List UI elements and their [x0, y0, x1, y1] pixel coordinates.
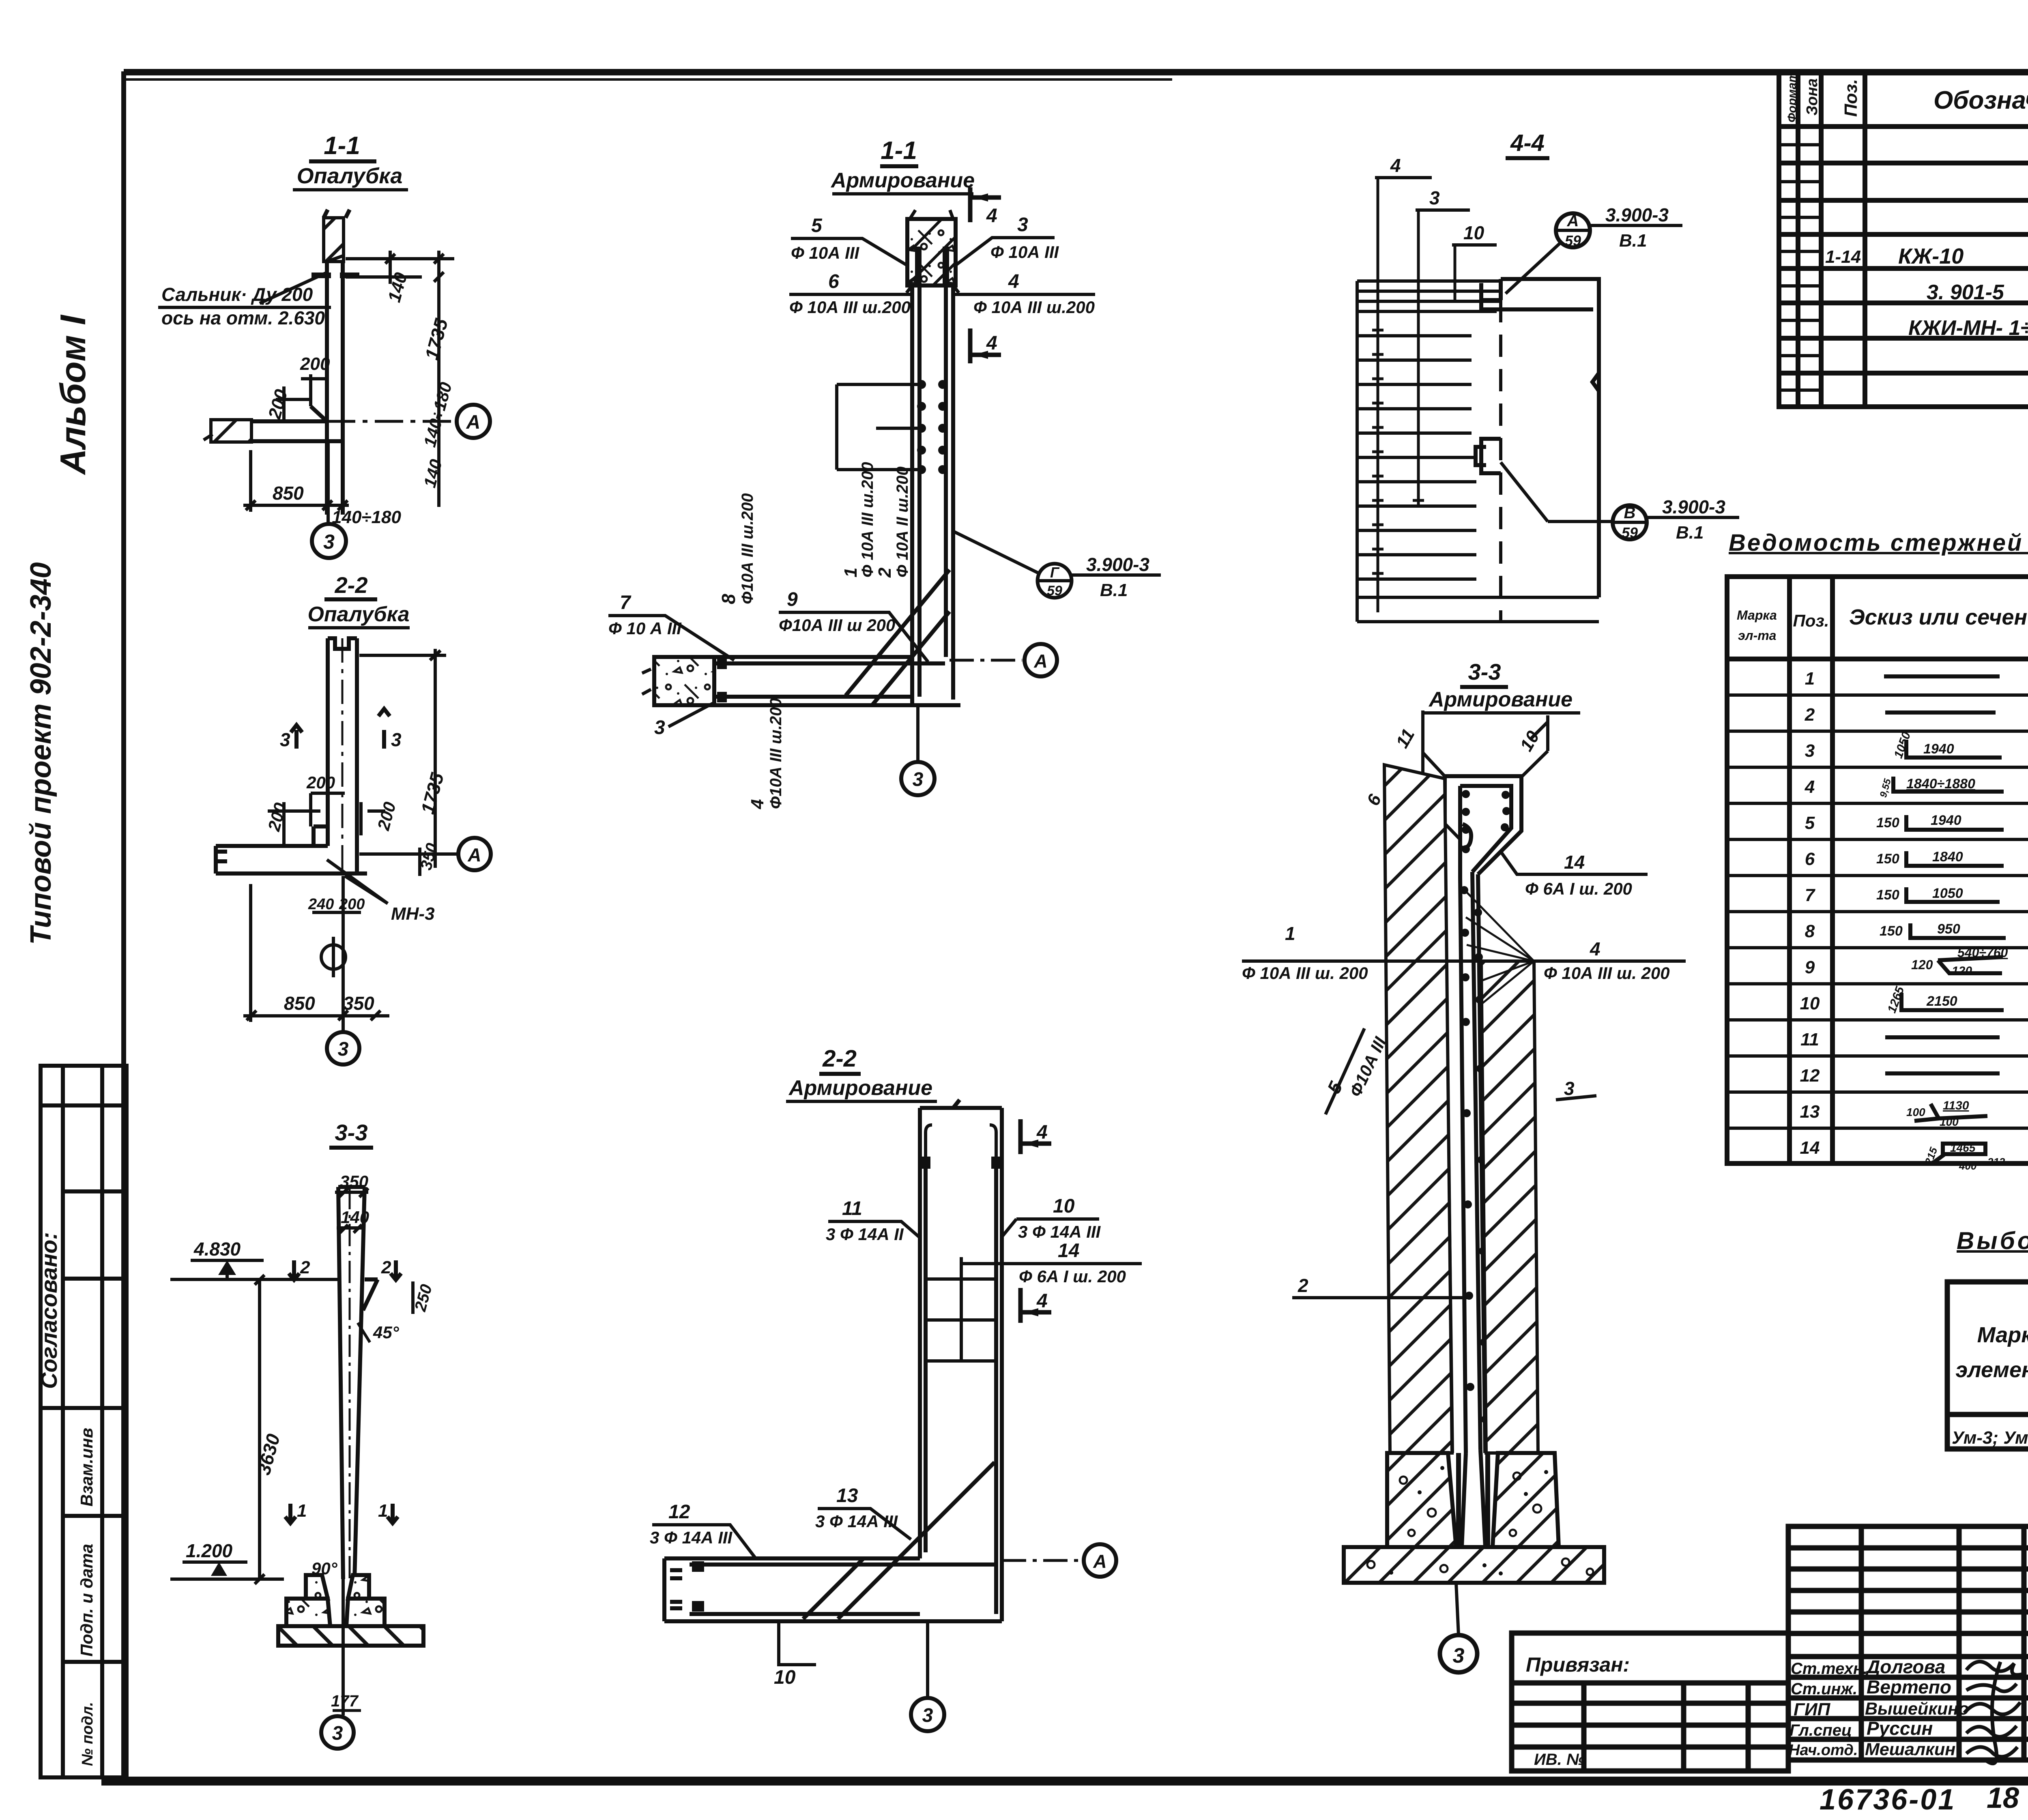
- svg-text:1-14: 1-14: [1825, 247, 1861, 267]
- svg-text:Опалубка: Опалубка: [297, 164, 403, 188]
- svg-text:150: 150: [1876, 851, 1899, 867]
- 177 dim: [342, 1579, 345, 1715]
- svg-text:45°: 45°: [373, 1323, 400, 1342]
- svg-text:В.1: В.1: [1100, 580, 1128, 600]
- svg-text:Ф 10А II ш.200: Ф 10А II ш.200: [894, 466, 911, 577]
- svg-text:Привязан:: Привязан:: [1526, 1653, 1630, 1676]
- svg-text:Мешалкин: Мешалкин: [1865, 1740, 1955, 1759]
- svg-text:Типовой проект 902-2-340: Типовой проект 902-2-340: [25, 562, 57, 945]
- footing: [1387, 1453, 1456, 1547]
- svg-text:2150: 2150: [1926, 994, 1957, 1009]
- svg-text:3: 3: [1017, 214, 1028, 236]
- svg-text:100: 100: [1906, 1106, 1925, 1118]
- svg-text:11: 11: [1800, 1030, 1819, 1050]
- svg-text:3: 3: [338, 1039, 349, 1060]
- svg-text:Вертепо: Вертепо: [1867, 1676, 1951, 1698]
- svg-text:4: 4: [1008, 271, 1019, 292]
- svg-text:140÷180: 140÷180: [332, 507, 402, 527]
- svg-text:7: 7: [620, 592, 632, 614]
- svg-text:элемента: элемента: [1955, 1358, 2028, 1382]
- svg-text:Эскиз или сечение: Эскиз или сечение: [1849, 605, 2028, 629]
- svg-text:А: А: [466, 412, 481, 433]
- section marks 3: [291, 709, 390, 749]
- svg-text:16736-01: 16736-01: [1820, 1784, 1956, 1816]
- svg-text:120: 120: [1911, 957, 1933, 972]
- svg-text:3: 3: [922, 1705, 933, 1726]
- svg-text:12: 12: [1800, 1066, 1820, 1086]
- svg-text:2-2: 2-2: [335, 572, 368, 598]
- svg-text:Ф10А III ш 200: Ф10А III ш 200: [779, 616, 895, 635]
- U-head box: [1445, 776, 1521, 878]
- svg-text:Ум-3; Ум-3а: Ум-3; Ум-3а: [1952, 1428, 2028, 1448]
- monolith right part: [1476, 279, 1599, 597]
- svg-text:3 Ф 14А III: 3 Ф 14А III: [1018, 1222, 1101, 1241]
- salnik tick: [312, 273, 359, 278]
- svg-text:А: А: [1033, 650, 1047, 672]
- dims above: [335, 1188, 368, 1233]
- svg-text:А: А: [1093, 1551, 1106, 1572]
- svg-text:4: 4: [1036, 1290, 1048, 1312]
- svg-text:В: В: [1624, 504, 1636, 522]
- svg-text:350: 350: [343, 993, 374, 1014]
- svg-text:1: 1: [1805, 669, 1815, 689]
- svg-text:150: 150: [1880, 923, 1903, 939]
- left stamp strip: [41, 1066, 127, 1777]
- svg-text:ГИП: ГИП: [1794, 1700, 1831, 1719]
- section mark 4 top: [970, 187, 1001, 222]
- svg-text:Ф 10А III ш. 200: Ф 10А III ш. 200: [1242, 964, 1368, 983]
- MN-3 leader: [327, 860, 388, 904]
- + marks: [1372, 324, 1424, 579]
- svg-text:3 Ф 14А II: 3 Ф 14А II: [826, 1225, 904, 1244]
- svg-text:3-3: 3-3: [335, 1120, 368, 1145]
- svg-text:Ф10А III ш.200: Ф10А III ш.200: [767, 698, 785, 809]
- svg-text:1-1: 1-1: [324, 132, 360, 160]
- svg-text:Обозначение: Обозначение: [1933, 86, 2028, 114]
- svg-text:1840: 1840: [1932, 849, 1963, 865]
- svg-text:59: 59: [1047, 583, 1062, 599]
- svg-text:850: 850: [273, 483, 304, 504]
- svg-text:4: 4: [1805, 777, 1815, 797]
- top hatched block: [907, 219, 956, 285]
- circle 3: [1456, 1583, 1459, 1635]
- svg-text:3-3: 3-3: [1468, 659, 1501, 685]
- svg-text:3: 3: [391, 729, 402, 750]
- svg-text:Поз.: Поз.: [1793, 611, 1829, 630]
- right hatched band: [1481, 961, 1538, 1453]
- svg-text:эл-та: эл-та: [1738, 628, 1776, 643]
- svg-text:Марка: Марка: [1977, 1323, 2028, 1347]
- svg-text:3: 3: [332, 1723, 343, 1744]
- svg-text:7: 7: [1805, 885, 1816, 905]
- diagonal: [846, 570, 950, 695]
- rungs: [926, 1257, 996, 1361]
- svg-text:540÷760: 540÷760: [1957, 945, 2008, 960]
- svg-text:3: 3: [1453, 1644, 1465, 1668]
- svg-text:3.900-3: 3.900-3: [1086, 554, 1149, 575]
- svg-text:8: 8: [1805, 921, 1815, 941]
- svg-text:3.900-3: 3.900-3: [1605, 204, 1669, 225]
- svg-text:ось на отм. 2.630: ось на отм. 2.630: [161, 307, 325, 328]
- svg-text:4: 4: [986, 333, 997, 354]
- svg-text:59: 59: [1565, 232, 1581, 249]
- svg-text:Ф 10 А III: Ф 10 А III: [608, 619, 682, 638]
- left hatched band: [1384, 765, 1452, 1453]
- wall tapered: [338, 1187, 378, 1579]
- wall verticals: [1445, 872, 1485, 1453]
- bottom slab: [654, 657, 960, 705]
- svg-text:ИВ. №: ИВ. №: [1534, 1751, 1585, 1768]
- svg-text:Марка: Марка: [1737, 608, 1777, 622]
- svg-text:2: 2: [875, 567, 895, 578]
- svg-text:А: А: [467, 844, 481, 865]
- svg-text:4: 4: [986, 205, 997, 227]
- circle 3: [926, 1621, 929, 1698]
- svg-text:3: 3: [1805, 741, 1815, 761]
- svg-text:КЖИ-МН- 1÷МН-9: КЖИ-МН- 1÷МН-9: [1908, 316, 2028, 340]
- svg-text:400: 400: [1959, 1160, 1977, 1172]
- circle 3: [916, 705, 919, 761]
- rebar dots and bracket: [917, 380, 947, 474]
- svg-text:Зона: Зона: [1804, 78, 1821, 116]
- svg-text:1: 1: [378, 1501, 388, 1521]
- svg-text:МН-3: МН-3: [391, 904, 435, 924]
- svg-text:2-2: 2-2: [822, 1045, 857, 1072]
- svg-text:10: 10: [1463, 222, 1484, 243]
- privyazan table: [1512, 1633, 1788, 1771]
- top clamps: [922, 1157, 930, 1169]
- svg-text:240: 240: [308, 896, 334, 913]
- footing: [306, 1575, 328, 1599]
- svg-text:2: 2: [1805, 705, 1815, 725]
- svg-text:Поз.: Поз.: [1841, 79, 1861, 117]
- svg-text:200: 200: [300, 354, 330, 374]
- svg-text:120: 120: [1952, 964, 1972, 978]
- svg-text:4: 4: [748, 799, 767, 809]
- wall: [920, 1100, 1002, 1621]
- svg-text:150: 150: [1876, 815, 1899, 831]
- section marks 4: [1020, 1119, 1051, 1323]
- top panel cut lines right: [1546, 715, 1549, 751]
- svg-text:Ф 10А III: Ф 10А III: [990, 243, 1059, 262]
- svg-text:Армирование: Армирование: [1428, 688, 1573, 711]
- svg-text:№ подл.: № подл.: [79, 1702, 96, 1766]
- svg-text:150: 150: [1876, 887, 1899, 903]
- rebar dots along wall: [1460, 886, 1489, 1423]
- panel stack (left): [1357, 281, 1599, 622]
- diagonals: [838, 1462, 995, 1619]
- svg-text:4-4: 4-4: [1510, 130, 1545, 156]
- 3630 dim: [258, 1279, 261, 1579]
- svg-text:1-1: 1-1: [881, 137, 917, 165]
- svg-text:14: 14: [1564, 852, 1585, 873]
- svg-text:12: 12: [668, 1501, 690, 1523]
- svg-text:Формат: Формат: [1785, 72, 1799, 122]
- svg-text:10: 10: [1053, 1195, 1075, 1217]
- leader 14: [1501, 852, 1648, 874]
- svg-text:Ф 10А III: Ф 10А III: [791, 243, 860, 262]
- svg-text:950: 950: [1937, 921, 1960, 937]
- svg-text:3: 3: [913, 769, 924, 790]
- svg-text:Армирование: Армирование: [788, 1076, 932, 1100]
- svg-text:8: 8: [718, 594, 739, 604]
- svg-text:Опалубка: Опалубка: [307, 603, 409, 626]
- svg-text:Согласовано:: Согласовано:: [36, 1232, 62, 1389]
- svg-text:Альбом I: Альбом I: [53, 315, 93, 475]
- svg-text:Ф 6А I ш. 200: Ф 6А I ш. 200: [1525, 879, 1632, 898]
- svg-text:5: 5: [811, 215, 823, 236]
- svg-text:В.1: В.1: [1619, 231, 1647, 251]
- svg-text:14: 14: [1058, 1240, 1079, 1262]
- svg-text:4: 4: [1590, 938, 1600, 959]
- svg-text:11: 11: [842, 1198, 862, 1219]
- svg-text:4: 4: [1390, 155, 1401, 176]
- svg-text:3 Ф 14А III: 3 Ф 14А III: [650, 1528, 733, 1547]
- pos / f / len / qty texts: [1800, 669, 1820, 1158]
- svg-text:Нач.отд.: Нач.отд.: [1789, 1742, 1858, 1759]
- svg-text:3: 3: [323, 530, 335, 553]
- svg-text:2: 2: [1298, 1275, 1308, 1296]
- svg-text:14: 14: [1800, 1138, 1820, 1158]
- svg-text:850: 850: [284, 993, 315, 1014]
- svg-text:3: 3: [1564, 1078, 1575, 1099]
- svg-text:Ф 10А III ш. 200: Ф 10А III ш. 200: [1544, 964, 1670, 983]
- svg-text:9: 9: [787, 589, 798, 610]
- svg-text:А: А: [1567, 212, 1579, 230]
- svg-text:10: 10: [774, 1667, 796, 1688]
- svg-text:Вышейкино: Вышейкино: [1865, 1699, 1969, 1719]
- svg-text:В.1: В.1: [1676, 523, 1704, 543]
- svg-text:3: 3: [1429, 187, 1440, 208]
- circle A: [1002, 1559, 1081, 1562]
- svg-text:1840÷1880: 1840÷1880: [1906, 776, 1975, 792]
- bottom dims: [243, 450, 349, 512]
- svg-text:1465: 1465: [1950, 1142, 1976, 1154]
- svg-text:3.900-3: 3.900-3: [1662, 496, 1725, 517]
- svg-text:Руссин: Руссин: [1867, 1718, 1933, 1739]
- svg-text:1: 1: [841, 568, 861, 577]
- svg-text:213: 213: [1987, 1156, 2005, 1168]
- svg-text:Гл.спец: Гл.спец: [1790, 1721, 1852, 1739]
- svg-text:177: 177: [331, 1692, 359, 1710]
- svg-text:1940: 1940: [1931, 813, 1961, 828]
- svg-text:Армирование: Армирование: [830, 169, 975, 192]
- top dim: [346, 251, 454, 507]
- svg-text:2: 2: [300, 1258, 310, 1277]
- svg-text:Ф 6А I ш. 200: Ф 6А I ш. 200: [1019, 1267, 1126, 1286]
- svg-text:КЖ-10: КЖ-10: [1898, 244, 1964, 268]
- dims: [268, 649, 458, 876]
- top panel cut lines left: [1421, 710, 1424, 802]
- svg-text:3: 3: [280, 729, 290, 750]
- svg-text:1050: 1050: [1932, 886, 1963, 901]
- svg-text:Ф10А III ш.200: Ф10А III ш.200: [739, 493, 756, 604]
- section marks 1: [285, 1504, 398, 1523]
- wall with hatched top: [324, 210, 350, 515]
- svg-text:Г: Г: [1050, 564, 1060, 581]
- axis line to circle A: [327, 420, 456, 423]
- svg-text:Ведомость стержней на один: Ведомость стержней на один элемент.: [1729, 530, 2028, 556]
- sketches: [1884, 676, 2006, 1163]
- svg-text:10: 10: [1800, 994, 1820, 1013]
- svg-text:Ст.техн.: Ст.техн.: [1791, 1660, 1867, 1678]
- svg-text:Ст.инж.: Ст.инж.: [1791, 1680, 1857, 1698]
- svg-text:Выборка стали на один элеме: Выборка стали на один элемент: [1957, 1227, 2028, 1254]
- svg-text:Подп. и дата: Подп. и дата: [77, 1544, 96, 1657]
- svg-text:Долгова: Долгова: [1865, 1656, 1945, 1677]
- svg-text:1: 1: [297, 1501, 307, 1521]
- svg-text:1130: 1130: [1943, 1099, 1969, 1112]
- svg-text:4.830: 4.830: [193, 1238, 241, 1260]
- bottom dims: [243, 884, 389, 1022]
- wall verticals: [912, 285, 953, 705]
- svg-text:Ф 10А III ш.200: Ф 10А III ш.200: [859, 462, 877, 577]
- svg-text:3 Ф 14А III: 3 Ф 14А III: [815, 1512, 898, 1531]
- svg-text:1: 1: [1285, 923, 1295, 944]
- svg-text:3: 3: [654, 717, 665, 738]
- leader G circle: [953, 531, 1039, 573]
- svg-text:Взам.инв: Взам.инв: [77, 1428, 96, 1507]
- svg-text:100: 100: [1940, 1116, 1959, 1128]
- svg-text:Ф 10А III ш.200: Ф 10А III ш.200: [973, 298, 1095, 317]
- svg-text:2: 2: [381, 1258, 391, 1277]
- svg-text:3. 901-5: 3. 901-5: [1927, 281, 2004, 304]
- svg-text:18: 18: [1987, 1782, 2019, 1814]
- svg-text:13: 13: [1800, 1102, 1820, 1122]
- svg-text:13: 13: [836, 1485, 858, 1507]
- svg-text:9: 9: [1805, 957, 1815, 977]
- svg-text:6: 6: [828, 271, 839, 292]
- circle A leader: [1556, 213, 1590, 247]
- svg-text:5: 5: [1805, 813, 1815, 833]
- slab: [213, 406, 343, 441]
- svg-text:Сальник· Ду 200: Сальник· Ду 200: [161, 284, 313, 305]
- circle A: [950, 659, 1022, 662]
- svg-text:6: 6: [1805, 849, 1815, 869]
- bottom slab: [664, 1558, 1002, 1621]
- section marks 2: [289, 1260, 401, 1280]
- svg-text:Ф 10А III ш.200: Ф 10А III ш.200: [789, 298, 911, 317]
- svg-text:1.200: 1.200: [186, 1540, 233, 1561]
- svg-text:59: 59: [1622, 524, 1638, 541]
- svg-text:1940: 1940: [1923, 741, 1954, 757]
- circle B leader: [1501, 462, 1548, 522]
- svg-text:200: 200: [306, 773, 335, 792]
- svg-text:4: 4: [1036, 1122, 1048, 1143]
